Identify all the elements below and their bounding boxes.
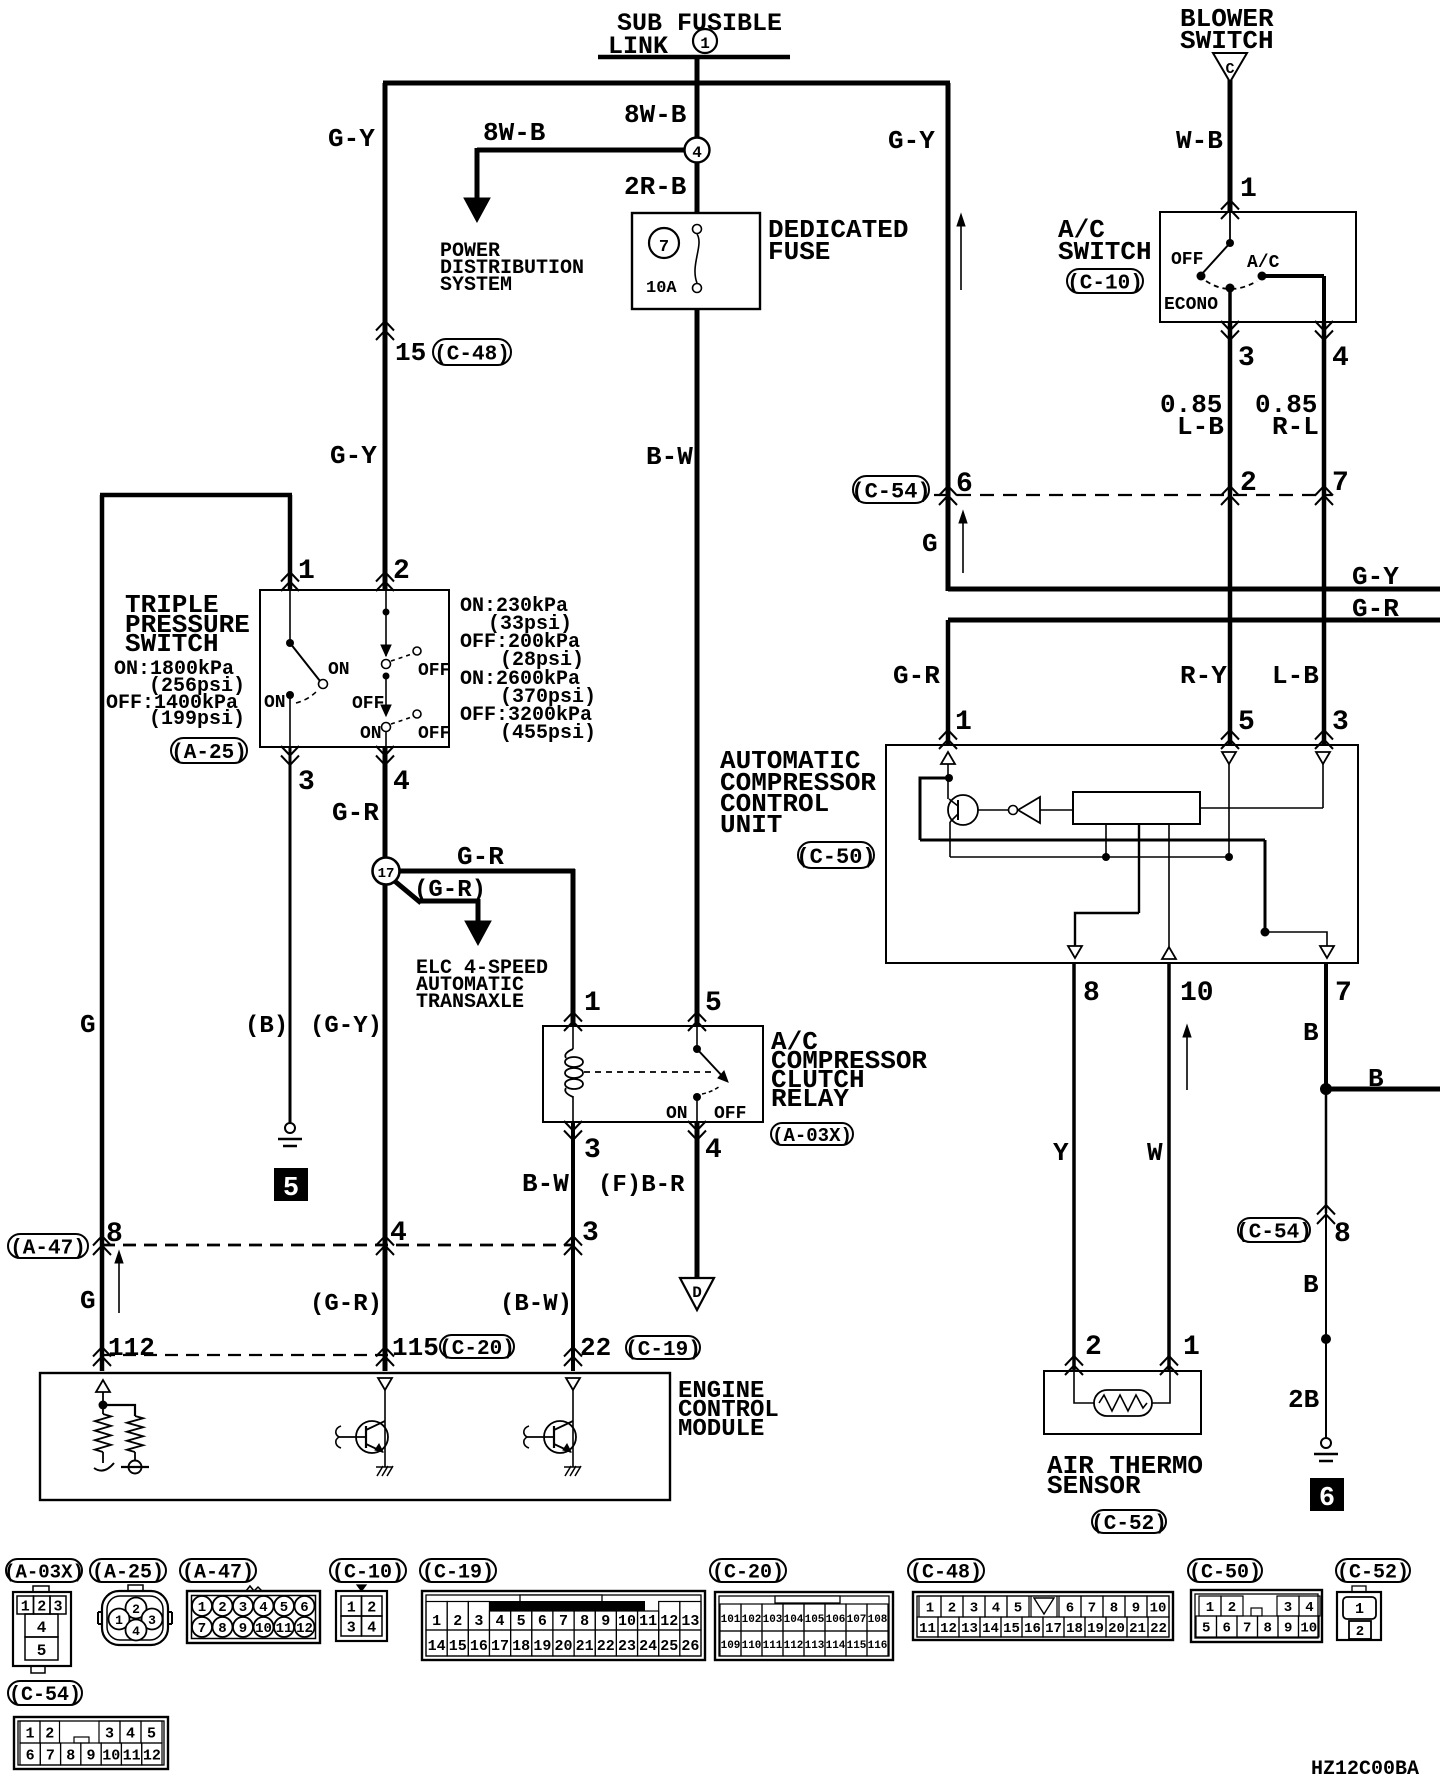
svg-text:21: 21 xyxy=(1129,1621,1146,1637)
svg-text:4: 4 xyxy=(992,1601,1000,1617)
svg-text:4: 4 xyxy=(132,1624,140,1639)
svg-text:3: 3 xyxy=(584,1135,601,1166)
svg-text:5: 5 xyxy=(283,1174,299,1204)
svg-text:19: 19 xyxy=(533,1638,551,1655)
svg-text:(C-48): (C-48) xyxy=(910,1562,982,1585)
svg-text:(F)B-R: (F)B-R xyxy=(598,1172,685,1199)
svg-text:104: 104 xyxy=(784,1614,804,1626)
svg-text:ECONO: ECONO xyxy=(1164,295,1218,315)
svg-text:B: B xyxy=(1303,1018,1319,1048)
svg-text:15: 15 xyxy=(449,1638,467,1655)
svg-text:(A-25): (A-25) xyxy=(171,742,247,765)
svg-text:SYSTEM: SYSTEM xyxy=(440,274,512,297)
svg-text:(C-19): (C-19) xyxy=(422,1562,494,1585)
svg-text:24: 24 xyxy=(639,1638,657,1655)
svg-text:6: 6 xyxy=(1319,1484,1335,1514)
svg-text:10: 10 xyxy=(618,1613,636,1630)
svg-text:12: 12 xyxy=(143,1747,161,1764)
svg-text:13: 13 xyxy=(961,1621,978,1637)
svg-text:W: W xyxy=(1147,1138,1163,1168)
svg-text:1: 1 xyxy=(115,1613,123,1628)
svg-text:1: 1 xyxy=(1355,1601,1364,1618)
svg-text:10: 10 xyxy=(1180,978,1214,1009)
svg-text:12: 12 xyxy=(940,1621,957,1637)
svg-text:G: G xyxy=(80,1286,96,1316)
svg-text:G-R: G-R xyxy=(332,798,379,828)
svg-text:6: 6 xyxy=(300,1600,308,1616)
svg-text:(C-20): (C-20) xyxy=(712,1562,784,1585)
svg-text:OFF: OFF xyxy=(1171,250,1203,270)
svg-text:109: 109 xyxy=(721,1640,741,1652)
svg-text:8: 8 xyxy=(1264,1621,1272,1637)
svg-text:G-Y: G-Y xyxy=(888,126,935,156)
svg-text:5: 5 xyxy=(1202,1621,1210,1637)
svg-text:1: 1 xyxy=(21,1598,30,1615)
svg-text:2R-B: 2R-B xyxy=(624,172,687,202)
svg-text:17: 17 xyxy=(378,866,395,882)
svg-text:19: 19 xyxy=(1087,1621,1104,1637)
svg-text:5: 5 xyxy=(705,988,722,1019)
svg-text:4: 4 xyxy=(692,144,702,162)
svg-text:4: 4 xyxy=(390,1218,407,1249)
svg-text:(C-54): (C-54) xyxy=(1236,1222,1312,1245)
svg-text:7: 7 xyxy=(1335,978,1352,1009)
svg-text:8W-B: 8W-B xyxy=(483,118,546,148)
svg-text:3: 3 xyxy=(347,1619,356,1636)
svg-text:(C-48): (C-48) xyxy=(434,344,510,367)
svg-text:6: 6 xyxy=(956,469,973,500)
svg-text:18: 18 xyxy=(512,1638,530,1655)
svg-text:OFF: OFF xyxy=(714,1104,746,1124)
svg-text:(G-R): (G-R) xyxy=(414,877,486,904)
svg-text:17: 17 xyxy=(491,1638,509,1655)
svg-text:B: B xyxy=(1368,1064,1384,1094)
svg-text:1: 1 xyxy=(347,1599,356,1616)
svg-text:7: 7 xyxy=(559,1613,568,1630)
svg-text:(C-54): (C-54) xyxy=(851,479,930,504)
svg-text:4: 4 xyxy=(1332,343,1349,374)
svg-text:17: 17 xyxy=(1045,1621,1062,1637)
svg-text:11: 11 xyxy=(123,1747,141,1764)
svg-text:D: D xyxy=(692,1284,702,1302)
svg-text:116: 116 xyxy=(868,1640,888,1652)
svg-text:A/C: A/C xyxy=(1247,253,1280,273)
svg-text:5: 5 xyxy=(1238,707,1255,738)
svg-text:(C-19): (C-19) xyxy=(625,1339,701,1362)
svg-text:OFF: OFF xyxy=(352,694,384,714)
svg-text:G-R: G-R xyxy=(1352,594,1399,624)
svg-text:G-R: G-R xyxy=(457,842,504,872)
svg-text:R-Y: R-Y xyxy=(1180,661,1227,691)
svg-text:9: 9 xyxy=(86,1747,95,1764)
svg-text:26: 26 xyxy=(681,1638,699,1655)
svg-text:115: 115 xyxy=(392,1333,439,1363)
svg-text:5: 5 xyxy=(1014,1601,1022,1617)
svg-text:3: 3 xyxy=(1238,343,1255,374)
svg-text:UNIT: UNIT xyxy=(720,810,782,840)
svg-text:G-R: G-R xyxy=(893,661,940,691)
svg-text:22: 22 xyxy=(580,1333,611,1363)
svg-text:8: 8 xyxy=(66,1747,75,1764)
svg-text:2: 2 xyxy=(367,1599,376,1616)
svg-text:2: 2 xyxy=(1228,1600,1236,1616)
svg-text:(G-Y): (G-Y) xyxy=(310,1013,382,1040)
svg-text:10: 10 xyxy=(1150,1601,1167,1617)
svg-text:OFF: OFF xyxy=(418,661,450,681)
svg-text:8: 8 xyxy=(218,1621,226,1637)
svg-text:112: 112 xyxy=(108,1333,155,1363)
svg-text:11: 11 xyxy=(276,1621,293,1637)
svg-text:7: 7 xyxy=(1332,468,1349,499)
svg-text:2: 2 xyxy=(1085,1332,1102,1363)
svg-text:4: 4 xyxy=(1305,1600,1313,1616)
svg-text:3: 3 xyxy=(1284,1600,1292,1616)
svg-text:(A-03X): (A-03X) xyxy=(4,1561,84,1583)
svg-text:8: 8 xyxy=(1083,978,1100,1009)
svg-text:TRANSAXLE: TRANSAXLE xyxy=(416,991,524,1014)
svg-text:(A-03X): (A-03X) xyxy=(772,1125,852,1147)
svg-text:(C-52): (C-52) xyxy=(1091,1513,1167,1536)
svg-text:22: 22 xyxy=(1150,1621,1167,1637)
svg-text:4: 4 xyxy=(37,1619,47,1637)
svg-text:1: 1 xyxy=(1206,1600,1214,1616)
svg-text:23: 23 xyxy=(618,1638,636,1655)
svg-text:B-W: B-W xyxy=(522,1169,569,1199)
svg-text:4: 4 xyxy=(393,767,410,798)
svg-text:1: 1 xyxy=(926,1601,934,1617)
svg-text:9: 9 xyxy=(1132,1601,1140,1617)
svg-text:3: 3 xyxy=(105,1725,114,1742)
svg-text:8W-B: 8W-B xyxy=(624,100,687,130)
svg-text:3: 3 xyxy=(970,1601,978,1617)
svg-text:2B: 2B xyxy=(1288,1385,1320,1415)
svg-text:(A-47): (A-47) xyxy=(10,1238,86,1261)
svg-text:7: 7 xyxy=(1088,1601,1096,1617)
svg-text:7: 7 xyxy=(1243,1621,1251,1637)
svg-text:LINK: LINK xyxy=(608,32,668,61)
svg-text:8: 8 xyxy=(106,1219,123,1250)
svg-text:3: 3 xyxy=(582,1218,599,1249)
svg-text:HZ12C00BA: HZ12C00BA xyxy=(1311,1758,1419,1780)
svg-text:G-Y: G-Y xyxy=(1352,562,1399,592)
svg-text:3: 3 xyxy=(53,1598,62,1615)
svg-text:SWITCH: SWITCH xyxy=(1058,237,1152,267)
svg-text:ON: ON xyxy=(666,1104,688,1124)
svg-text:2: 2 xyxy=(218,1600,226,1616)
svg-text:MODULE: MODULE xyxy=(678,1416,764,1443)
svg-text:1: 1 xyxy=(1183,1332,1200,1363)
svg-text:4: 4 xyxy=(259,1600,267,1616)
svg-text:3: 3 xyxy=(298,767,315,798)
svg-text:6: 6 xyxy=(1066,1601,1074,1617)
svg-text:SWITCH: SWITCH xyxy=(1180,26,1274,56)
svg-text:5: 5 xyxy=(517,1613,526,1630)
svg-text:18: 18 xyxy=(1066,1621,1083,1637)
svg-text:8: 8 xyxy=(1110,1601,1118,1617)
svg-text:W-B: W-B xyxy=(1176,126,1223,156)
svg-text:10: 10 xyxy=(102,1747,120,1764)
svg-text:113: 113 xyxy=(805,1640,825,1652)
svg-text:101: 101 xyxy=(721,1614,741,1626)
svg-text:112: 112 xyxy=(784,1640,804,1652)
svg-text:25: 25 xyxy=(660,1638,678,1655)
svg-text:5: 5 xyxy=(147,1725,156,1742)
svg-text:ON: ON xyxy=(264,693,286,713)
svg-text:3: 3 xyxy=(148,1613,156,1628)
svg-text:115: 115 xyxy=(847,1640,867,1652)
svg-text:(C-50): (C-50) xyxy=(1189,1562,1261,1585)
svg-text:4: 4 xyxy=(126,1725,135,1742)
svg-text:(A-25): (A-25) xyxy=(92,1562,164,1585)
svg-text:9: 9 xyxy=(239,1621,247,1637)
svg-text:2: 2 xyxy=(1356,1624,1364,1640)
svg-text:10: 10 xyxy=(1300,1621,1317,1637)
svg-text:14: 14 xyxy=(428,1638,446,1655)
svg-text:G: G xyxy=(80,1010,96,1040)
svg-text:B-W: B-W xyxy=(646,442,693,472)
svg-text:SWITCH: SWITCH xyxy=(125,629,219,659)
svg-text:(C-52): (C-52) xyxy=(1337,1562,1409,1585)
svg-text:(A-47): (A-47) xyxy=(182,1562,254,1585)
svg-text:Y: Y xyxy=(1053,1138,1069,1168)
svg-text:1: 1 xyxy=(584,988,601,1019)
svg-text:(B-W): (B-W) xyxy=(500,1291,572,1318)
svg-text:(455psi): (455psi) xyxy=(500,722,596,745)
svg-text:FUSE: FUSE xyxy=(768,237,830,267)
svg-text:1: 1 xyxy=(432,1613,441,1630)
svg-text:114: 114 xyxy=(826,1640,846,1652)
svg-text:7: 7 xyxy=(198,1621,206,1637)
svg-text:L-B: L-B xyxy=(1177,412,1224,442)
svg-text:10A: 10A xyxy=(646,279,677,298)
svg-text:10: 10 xyxy=(255,1621,272,1637)
svg-text:OFF: OFF xyxy=(418,724,450,744)
svg-text:22: 22 xyxy=(597,1638,615,1655)
svg-text:1: 1 xyxy=(198,1600,206,1616)
svg-text:L-B: L-B xyxy=(1272,661,1319,691)
svg-text:8: 8 xyxy=(580,1613,589,1630)
svg-text:16: 16 xyxy=(470,1638,488,1655)
svg-text:(C-54): (C-54) xyxy=(9,1684,81,1707)
svg-text:20: 20 xyxy=(554,1638,572,1655)
svg-text:1: 1 xyxy=(1240,174,1257,205)
svg-text:105: 105 xyxy=(805,1614,825,1626)
svg-text:(G-R): (G-R) xyxy=(310,1291,382,1318)
svg-text:7: 7 xyxy=(659,238,669,257)
svg-text:14: 14 xyxy=(982,1621,999,1637)
svg-text:B: B xyxy=(1303,1270,1319,1300)
svg-text:103: 103 xyxy=(763,1614,783,1626)
svg-text:110: 110 xyxy=(742,1640,762,1652)
svg-text:2: 2 xyxy=(948,1601,956,1617)
svg-text:6: 6 xyxy=(538,1613,547,1630)
svg-text:21: 21 xyxy=(576,1638,594,1655)
svg-text:C: C xyxy=(1225,61,1234,78)
svg-text:11: 11 xyxy=(919,1621,936,1637)
svg-text:R-L: R-L xyxy=(1272,412,1319,442)
svg-text:15: 15 xyxy=(1003,1621,1020,1637)
svg-text:(C-20): (C-20) xyxy=(439,1338,515,1361)
svg-text:106: 106 xyxy=(826,1614,846,1626)
svg-text:2: 2 xyxy=(453,1613,462,1630)
svg-text:2: 2 xyxy=(45,1725,54,1742)
svg-text:G: G xyxy=(922,529,938,559)
svg-text:2: 2 xyxy=(1240,468,1257,499)
svg-text:9: 9 xyxy=(1284,1621,1292,1637)
svg-text:15: 15 xyxy=(395,338,426,368)
svg-text:2: 2 xyxy=(393,556,410,587)
svg-text:ON: ON xyxy=(360,724,382,744)
svg-text:5: 5 xyxy=(37,1642,47,1660)
svg-text:4: 4 xyxy=(496,1613,505,1630)
svg-text:4: 4 xyxy=(367,1619,376,1636)
svg-text:7: 7 xyxy=(46,1747,55,1764)
svg-text:3: 3 xyxy=(1332,707,1349,738)
svg-text:5: 5 xyxy=(280,1600,288,1616)
svg-text:16: 16 xyxy=(1024,1621,1041,1637)
svg-text:2: 2 xyxy=(37,1598,46,1615)
svg-text:20: 20 xyxy=(1108,1621,1125,1637)
svg-text:1: 1 xyxy=(955,707,972,738)
svg-text:108: 108 xyxy=(868,1614,888,1626)
svg-text:13: 13 xyxy=(681,1613,699,1630)
svg-text:(C-50): (C-50) xyxy=(796,845,875,870)
svg-text:6: 6 xyxy=(26,1747,35,1764)
svg-text:(C-10): (C-10) xyxy=(1067,273,1143,296)
svg-text:2: 2 xyxy=(132,1602,140,1617)
svg-text:3: 3 xyxy=(474,1613,483,1630)
svg-text:8: 8 xyxy=(1334,1219,1351,1250)
svg-text:G-Y: G-Y xyxy=(330,441,377,471)
svg-text:12: 12 xyxy=(296,1621,313,1637)
svg-text:RELAY: RELAY xyxy=(771,1084,849,1114)
svg-text:SENSOR: SENSOR xyxy=(1047,1471,1141,1501)
svg-text:3: 3 xyxy=(239,1600,247,1616)
svg-text:(B): (B) xyxy=(245,1013,288,1040)
svg-text:9: 9 xyxy=(601,1613,610,1630)
svg-text:G-Y: G-Y xyxy=(328,124,375,154)
svg-text:(199psi): (199psi) xyxy=(149,708,245,731)
svg-text:4: 4 xyxy=(705,1135,722,1166)
svg-text:ON: ON xyxy=(328,660,350,680)
svg-text:1: 1 xyxy=(298,556,315,587)
svg-text:1: 1 xyxy=(25,1725,34,1742)
svg-text:6: 6 xyxy=(1223,1621,1231,1637)
svg-text:12: 12 xyxy=(660,1613,678,1630)
svg-text:111: 111 xyxy=(763,1640,783,1652)
svg-text:102: 102 xyxy=(742,1614,762,1626)
svg-text:107: 107 xyxy=(847,1614,867,1626)
svg-text:11: 11 xyxy=(639,1613,657,1630)
svg-text:(C-10): (C-10) xyxy=(332,1562,404,1585)
